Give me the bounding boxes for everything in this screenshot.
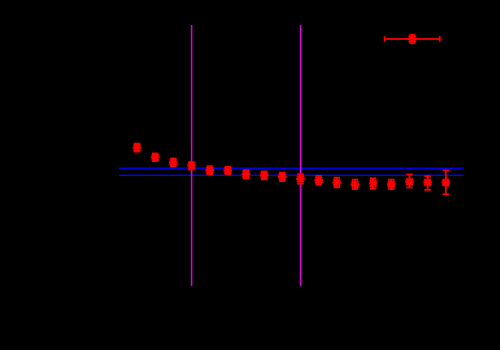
- data point 7 marker: [242, 170, 251, 179]
- data point 16 marker: [405, 177, 414, 186]
- legend sample line with end caps: [385, 36, 440, 41]
- legend marker: [408, 35, 417, 44]
- data point 14 error bar: [370, 178, 376, 188]
- data point 15 marker: [387, 180, 396, 189]
- data point 12 marker: [333, 178, 342, 187]
- data point 13 error bar: [352, 180, 358, 190]
- blue horizontal line lower (fit value): [119, 174, 464, 176]
- data point 17 marker: [423, 178, 432, 187]
- data point 11 error bar: [316, 176, 322, 185]
- data point 7 error bar: [243, 170, 249, 178]
- data point 5 marker: [205, 166, 214, 175]
- data point 9 marker: [278, 173, 287, 182]
- data point 11 marker: [314, 176, 323, 185]
- data point 2 error bar: [152, 154, 158, 162]
- data point 4 marker: [187, 161, 196, 170]
- data point 16 error bar: [406, 175, 412, 188]
- blue horizontal line upper (fit value): [119, 167, 464, 169]
- data point 9 error bar: [279, 173, 285, 181]
- data point 1 marker: [133, 143, 142, 152]
- data point 12 error bar: [334, 178, 340, 188]
- legend error bar sample: [410, 35, 415, 43]
- data point 10 error bar: [297, 174, 303, 184]
- data point 4 error bar: [188, 162, 194, 169]
- data point 15 error bar: [388, 180, 394, 190]
- data point 3 error bar: [170, 159, 176, 167]
- data point 17 error bar: [424, 176, 430, 190]
- data point 8 error bar: [261, 172, 267, 180]
- data point 2 marker: [151, 153, 160, 162]
- data point 13 marker: [351, 180, 360, 189]
- data point 6 error bar: [225, 167, 231, 174]
- data point 10 marker: [296, 175, 305, 184]
- magenta vertical line left: [191, 25, 193, 286]
- data point 18 error bar: [443, 170, 449, 194]
- data point 3 marker: [169, 158, 178, 167]
- magenta vertical line right: [300, 25, 302, 286]
- data point 1 error bar: [134, 144, 140, 152]
- data point 8 marker: [260, 171, 269, 180]
- data point 14 marker: [369, 179, 378, 188]
- data point 6 marker: [224, 166, 233, 175]
- data point 18 marker: [442, 178, 451, 187]
- data point 5 error bar: [207, 166, 213, 174]
